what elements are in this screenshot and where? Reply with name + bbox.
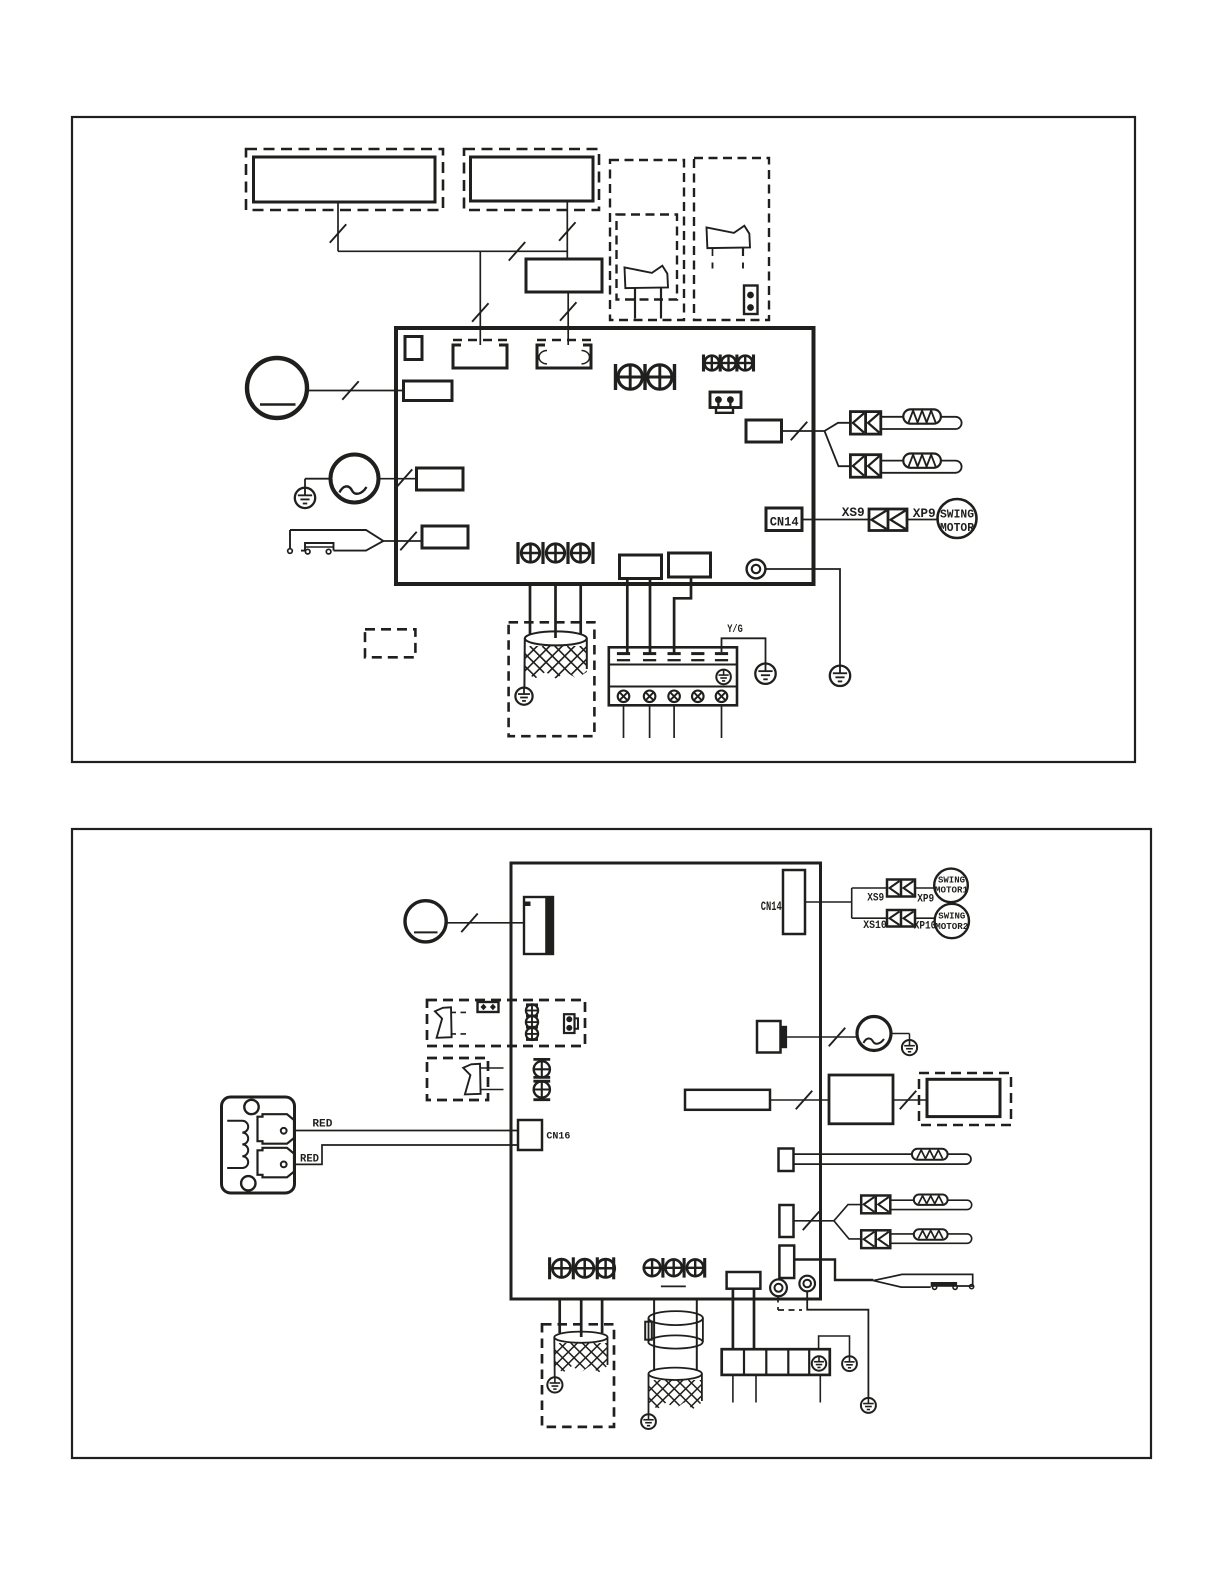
wire XP10 to swing motor 2 xyxy=(915,917,935,919)
wire CN14 to XS9 xyxy=(802,519,869,521)
electric heater EH4 xyxy=(890,1195,971,1210)
connector socket CN2 xyxy=(537,340,591,368)
wire fork to XS10 xyxy=(852,917,887,919)
wire board to transformer 2-2 xyxy=(580,1299,583,1337)
rocker switch SW1 xyxy=(625,266,669,288)
wire board to transformer 2-1 xyxy=(558,1299,561,1333)
connector pair heater 2 xyxy=(850,455,880,478)
main control board AP2 xyxy=(511,863,821,1299)
terminal contacts xyxy=(617,654,728,661)
connector CN14 xyxy=(766,508,802,531)
wire from receiver board xyxy=(566,201,568,259)
wire from display board xyxy=(337,202,339,251)
switch SW4 wire 1 xyxy=(480,1067,504,1069)
receiver board xyxy=(471,157,594,201)
electric heater EH5 xyxy=(890,1229,971,1243)
earth stud B xyxy=(799,1276,815,1292)
connector CN9 xyxy=(685,1090,770,1110)
electric heater EH3 xyxy=(794,1149,972,1164)
dashed enclosure of display board xyxy=(246,149,443,210)
spare dashed box xyxy=(365,629,415,657)
relay K2 xyxy=(669,553,711,577)
vertical pin header of two xyxy=(533,1059,550,1099)
reactor box xyxy=(829,1075,893,1124)
wire earth stud B to ground xyxy=(807,1291,868,1398)
wire CN12 to sensor xyxy=(794,1260,873,1281)
wire ground to fan motor xyxy=(305,479,331,488)
wire XP9 to swing motor 1 xyxy=(915,887,935,889)
label XP10 xyxy=(914,921,937,933)
pin header group of three B xyxy=(644,1258,705,1278)
fork to heater 5 xyxy=(834,1221,861,1239)
wire slash mark xyxy=(791,422,807,441)
field wire 2 xyxy=(649,705,651,738)
wire slash mark xyxy=(560,302,576,321)
wire slash mark xyxy=(803,1212,819,1231)
connector CN12 xyxy=(779,1246,794,1279)
wire slash mark xyxy=(509,242,525,261)
wire slash mark xyxy=(829,1028,845,1047)
terminal block ground contact xyxy=(716,670,731,685)
dashed link from earth stud A xyxy=(778,1297,802,1311)
label XP9 xyxy=(917,894,934,906)
wire bus between boards xyxy=(338,250,567,252)
field wire A xyxy=(732,1375,734,1403)
switch SW1 leg 1 xyxy=(634,289,636,319)
svg-text:RED: RED xyxy=(300,1154,319,1166)
wire CN9 to reactor xyxy=(770,1099,829,1101)
terminal block XT1 xyxy=(609,647,737,705)
label XS10 xyxy=(863,920,887,932)
fork to heater 2 xyxy=(825,431,851,466)
pin header group of three A xyxy=(550,1257,615,1279)
overload protector xyxy=(222,1097,295,1193)
wire slash mark xyxy=(796,1091,812,1110)
dashed enclosure right xyxy=(919,1073,1011,1125)
dashed enclosure switch area xyxy=(427,1000,585,1046)
field wire 5 xyxy=(721,705,723,738)
connector CN3 xyxy=(404,381,453,401)
label Y/G xyxy=(727,624,743,636)
wire from interface board xyxy=(567,292,569,345)
rocker switch SW3 xyxy=(435,1007,452,1038)
connector pair heater 5 xyxy=(861,1230,890,1248)
connector CN11 xyxy=(779,1205,793,1237)
wire relay K1 pin 2 xyxy=(649,579,652,653)
switch SW3 stub 1 xyxy=(451,1011,468,1013)
wire slash mark xyxy=(330,224,346,243)
svg-text:SWING: SWING xyxy=(938,910,965,921)
dashed enclosure of power switch xyxy=(694,158,769,320)
connector CN14 xyxy=(783,870,805,934)
fuse holder xyxy=(405,337,422,360)
connector pair heater 4 xyxy=(861,1196,890,1214)
interface board xyxy=(526,259,602,292)
marker line under header xyxy=(661,1285,686,1287)
svg-text:CN16: CN16 xyxy=(546,1132,570,1143)
fan motor M2 xyxy=(331,455,379,503)
wire fork to XS9 xyxy=(852,887,887,889)
wire motor M3 to board xyxy=(446,922,524,924)
wire receiver to board xyxy=(383,540,422,542)
wire board to transformer 1 xyxy=(529,584,532,634)
svg-text:MOTOR: MOTOR xyxy=(940,522,974,535)
jumper link JP2 xyxy=(564,1014,578,1033)
electric heater EH2 xyxy=(881,454,962,473)
svg-text:XS9: XS9 xyxy=(867,893,884,905)
wire board to compressor 2 xyxy=(696,1299,698,1371)
wire slash mark xyxy=(400,532,416,551)
display receiver assembly xyxy=(288,530,384,554)
wire board to transformer 2-3 xyxy=(601,1299,604,1333)
svg-text:SWING: SWING xyxy=(940,509,974,522)
label XP9 xyxy=(913,506,936,521)
pump motor M4 xyxy=(857,1017,891,1051)
switch SW2 leg 2 xyxy=(742,249,744,273)
swing motor MS1 xyxy=(934,869,968,903)
svg-text:CN14: CN14 xyxy=(761,899,782,914)
connector CN15 xyxy=(524,897,553,954)
component box in dashed enclosure xyxy=(927,1079,1000,1116)
field wire 3 xyxy=(673,705,675,738)
ground symbol XT2 xyxy=(842,1356,857,1371)
wire slash mark xyxy=(342,381,358,400)
wire board to transformer 3 xyxy=(579,584,582,634)
connector CN16 xyxy=(518,1120,542,1150)
swing motor MS xyxy=(938,499,977,538)
inner dashed enclosure xyxy=(617,215,678,300)
wire CN13 pin 1 xyxy=(732,1289,735,1350)
connector CN10 xyxy=(779,1149,794,1172)
two-pin plug xyxy=(744,286,758,315)
wire branch down to connector xyxy=(479,251,481,345)
fork to heater 4 xyxy=(834,1205,861,1221)
wire RED 1 xyxy=(294,1130,518,1132)
wire motor M1 to board xyxy=(307,390,404,392)
swing motor MS2 xyxy=(935,904,969,938)
wire terminal to ground xyxy=(819,1336,850,1356)
connector pair XS9-XP9 xyxy=(869,509,907,531)
terminal screws xyxy=(618,691,728,703)
connector socket CN1 xyxy=(453,340,507,368)
ground symbol transformer 2 xyxy=(547,1377,562,1392)
svg-text:XS10: XS10 xyxy=(863,920,887,932)
dashed enclosure of auxiliary switch xyxy=(610,160,684,320)
transformer 2 winding xyxy=(525,1332,661,1378)
jumper link JP1 xyxy=(710,392,741,413)
ground symbol far right xyxy=(861,1398,876,1413)
wire XP9 to swing motor xyxy=(907,519,938,521)
svg-text:Y/G: Y/G xyxy=(727,624,743,636)
electric heater EH1 xyxy=(881,409,962,429)
connector CN13 xyxy=(727,1272,761,1289)
label CN14 xyxy=(761,899,782,914)
connector pair XS9-XP9 xyxy=(887,880,915,897)
wire fan motor to board xyxy=(379,478,418,480)
connector CN5 xyxy=(422,526,468,548)
dashed enclosure switch area 2 xyxy=(427,1058,488,1100)
wire relay K1 pin 1 xyxy=(626,579,629,653)
wire CN11 to fork xyxy=(794,1220,834,1222)
wire RED 2 xyxy=(294,1145,518,1164)
earth stud on board xyxy=(747,560,766,579)
connector pair XS10-XP10 xyxy=(887,910,915,927)
vertical pin header of three xyxy=(526,1004,538,1040)
capacitor ring xyxy=(645,1311,703,1349)
switch SW1 leg 2 xyxy=(660,289,662,319)
svg-text:CN14: CN14 xyxy=(770,515,799,530)
main control board AP1 xyxy=(396,328,814,584)
dashed enclosure of transformer xyxy=(509,622,595,736)
svg-text:XP10: XP10 xyxy=(914,921,937,933)
wire Y/G to ground xyxy=(722,638,766,663)
earth stud A xyxy=(770,1279,787,1296)
wire slash mark xyxy=(559,222,575,241)
ground symbol compressor xyxy=(641,1414,656,1429)
border frame of outdoor-unit wiring diagram xyxy=(72,829,1151,1458)
field wire B xyxy=(755,1375,757,1403)
pin header group of three small xyxy=(704,355,754,372)
temperature sensor xyxy=(873,1274,973,1289)
display board xyxy=(254,157,436,202)
connector CN8 xyxy=(757,1021,787,1053)
ground of fan motor xyxy=(295,488,315,508)
wire earth stud to ground xyxy=(765,569,840,666)
dashed enclosure of transformer 2 xyxy=(542,1324,614,1427)
two-pin link plug xyxy=(478,1002,499,1012)
ground symbol right xyxy=(830,666,850,686)
wire slash mark xyxy=(396,469,412,488)
switch SW2 leg 1 xyxy=(712,249,714,273)
wire relay K2 jog xyxy=(674,577,691,653)
fork to heater 1 xyxy=(825,423,851,431)
svg-text:RED: RED xyxy=(312,1119,332,1131)
border frame of indoor-unit wiring diagram xyxy=(72,117,1135,762)
terminal ground contact xyxy=(812,1356,826,1370)
field wire C xyxy=(819,1375,821,1403)
field wire 1 xyxy=(623,705,625,738)
wire slash mark xyxy=(461,914,477,933)
label RED 1 xyxy=(312,1119,332,1131)
pin header group of three xyxy=(518,542,593,564)
svg-text:MOTOR1: MOTOR1 xyxy=(935,885,968,896)
wire relay to heater fork xyxy=(782,430,825,432)
stepping motor M1 xyxy=(247,358,307,418)
wire CN13 pin 2 xyxy=(753,1289,756,1350)
label CN16 xyxy=(546,1132,570,1143)
wire reactor to dashed box xyxy=(893,1099,927,1101)
svg-text:XS9: XS9 xyxy=(842,505,865,520)
wire slash mark xyxy=(472,303,488,322)
ground symbol transformer xyxy=(515,688,532,705)
rocker switch SW4 xyxy=(463,1064,480,1095)
stepping motor M3 xyxy=(405,901,446,942)
relay K1 xyxy=(620,555,662,579)
svg-text:MOTOR2: MOTOR2 xyxy=(935,921,968,932)
wire slash mark xyxy=(900,1091,916,1110)
wire board to compressor 1 xyxy=(653,1299,655,1371)
wire CN8 to pump motor xyxy=(787,1036,857,1038)
compressor winding xyxy=(620,1368,755,1414)
connector CN4 xyxy=(417,468,464,490)
dashed enclosure of receiver board xyxy=(464,149,599,210)
connector pair heater 1 xyxy=(850,412,880,435)
relay output connector xyxy=(746,420,782,442)
pin header group of two xyxy=(616,364,675,390)
terminal block XT2 xyxy=(722,1349,830,1375)
wire board to transformer 2 xyxy=(554,584,557,638)
rocker switch SW2 xyxy=(707,226,751,248)
switch SW4 wire 2 xyxy=(480,1089,504,1091)
transformer winding xyxy=(492,631,653,687)
label XS9 xyxy=(842,505,865,520)
wire CN14 to fork xyxy=(805,888,852,918)
svg-text:XP9: XP9 xyxy=(917,894,934,906)
label XS9 xyxy=(867,893,884,905)
ground symbol Y/G xyxy=(755,664,775,684)
ground pump motor xyxy=(891,1034,917,1056)
switch SW3 stub 2 xyxy=(451,1033,468,1035)
label RED 2 xyxy=(300,1154,319,1166)
